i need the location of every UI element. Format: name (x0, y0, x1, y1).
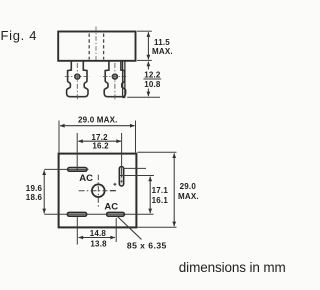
+ slot (vertical, top-right) (119, 167, 123, 187)
dim 17.2 extension line left (to AC slot center) (76, 133, 78, 172)
pin 2 faston terminal (side view right) (104, 61, 125, 97)
dim 29.0 MAX (top) dimension line (60, 125, 135, 127)
dim 12.2/10.8 dimension line lower (147, 89, 149, 97)
pin 1 horizontal center line (65, 75, 90, 77)
dim 29.0 MAX (right) dimension line (173, 153, 175, 226)
pin 1 vertical center line (76, 63, 78, 100)
dim 17.2/16.2 dimension line (78, 140, 121, 142)
svg-text:19.6: 19.6 (26, 184, 43, 193)
extension line from bottom-right slot (to 17.1 dim) (125, 213, 154, 215)
svg-text:MAX.: MAX. (178, 192, 199, 201)
hidden hole edge (dashed, left) (88, 34, 90, 60)
dim 12.2/10.8 fraction bar (143, 78, 161, 80)
extension line through AC slot (left, to 19.6 dim) (44, 168, 88, 170)
dim 29.0 MAX (top) extension line left (58, 121, 60, 153)
svg-text:29.0 MAX.: 29.0 MAX. (78, 116, 118, 125)
svg-text:29.0: 29.0 (180, 182, 197, 191)
center line of body hole (95, 27, 97, 61)
minus label (110, 190, 116, 192)
extension line from + slot center (to 17.1 dim) (120, 175, 155, 177)
svg-text:AC: AC (79, 173, 93, 184)
+ slot inner mark (121, 180, 123, 182)
svg-text:16.1: 16.1 (152, 196, 169, 205)
svg-text:AC: AC (104, 202, 118, 213)
dim 14.8/13.8 extension line right (115, 218, 117, 242)
dim 11.5 MAX extension line bottom (137, 59, 152, 61)
mounting hole horizontal center line (79, 190, 108, 192)
pin 2 hole (113, 74, 118, 79)
svg-text:13.8: 13.8 (90, 240, 107, 249)
dim 17.1/16.1 dimension line (149, 177, 151, 214)
pin 1 hole (75, 74, 80, 79)
dim 29.0 MAX (right) extension line top (138, 151, 177, 153)
package outline (bottom view) (59, 154, 137, 228)
dim 14.8/13.8 extension line left (76, 217, 78, 245)
svg-text:16.2: 16.2 (92, 141, 109, 150)
pin 3 edge-on blade (side view, + terminal) (123, 61, 125, 98)
+ label (113, 183, 116, 186)
pin 2 vertical center line (114, 63, 116, 100)
dim 29.0 MAX (top) extension line right (135, 121, 137, 153)
hidden hole edge (dashed, right) (103, 34, 105, 60)
svg-text:17.1: 17.1 (152, 186, 169, 195)
reference line from + slot top (124, 167, 146, 169)
dim 17.2 extension line right (to + slot center) (121, 133, 123, 178)
svg-text:12.2: 12.2 (144, 71, 161, 80)
dim 14.8/13.8 dimension line (79, 237, 116, 239)
leader line for 85 x 6.35 (118, 217, 142, 240)
svg-text:MAX.: MAX. (152, 47, 173, 56)
dim 11.5 MAX extension line top (137, 30, 152, 32)
pin 1 faston terminal (side view left) (67, 61, 88, 97)
mounting hole circle (92, 184, 105, 197)
AC slot bottom-right (107, 212, 125, 216)
svg-text:18.6: 18.6 (26, 193, 43, 202)
mounting hole vertical center line (97, 175, 99, 208)
AC slot bottom-left (67, 212, 86, 216)
pin tip extension line (127, 96, 160, 98)
svg-text:11.5: 11.5 (154, 38, 170, 47)
dim 29.0 MAX (right) extension line bottom (138, 226, 177, 228)
dim 12.2/10.8 dimension line upper (147, 62, 149, 70)
svg-text:14.8: 14.8 (90, 229, 107, 238)
pin 2 horizontal center line (103, 75, 127, 77)
extension line through bottom slots (to 18.6 dim) (44, 213, 124, 215)
dim 11.5 MAX dimension line (147, 32, 149, 59)
svg-text:85 x 6.35: 85 x 6.35 (127, 240, 167, 250)
svg-text:Fig. 4: Fig. 4 (1, 28, 38, 43)
AC slot top-left (68, 168, 87, 172)
svg-text:dimensions in mm: dimensions in mm (179, 260, 286, 275)
package body (side view) (58, 32, 135, 61)
svg-text:10.8: 10.8 (144, 80, 161, 89)
dim 19.6/18.6 dimension line (43, 170, 45, 213)
